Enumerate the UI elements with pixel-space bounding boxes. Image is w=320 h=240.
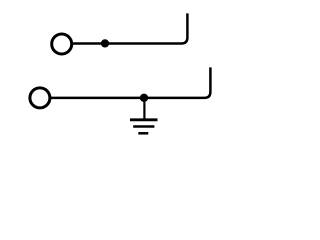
wire (bottom, with hook up at right) (51, 67, 211, 98)
wire (ground stem) (143, 98, 145, 120)
wire (top, with hook up at right) (73, 13, 188, 43)
terminal circle (top contact) (52, 34, 72, 54)
node (junction dot on bottom wire) (140, 94, 148, 102)
node (junction dot on top wire) (101, 39, 109, 47)
terminal circle (bottom contact) (30, 88, 50, 108)
ground (earth symbol bars) (130, 120, 158, 134)
